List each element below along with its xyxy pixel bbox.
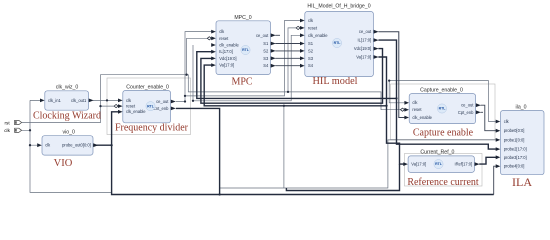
junction rst at counter reset branch: [99, 105, 101, 107]
block Counter_enable_0 (Frequency divider): [114, 84, 176, 123]
svg-text:ILA: ILA: [512, 175, 532, 189]
external port clk: [4, 128, 21, 133]
external port rst: [5, 120, 22, 125]
wire clk line to capture clk and ila clk: [389, 81, 498, 122]
junction rst at mpc reset branch: [185, 74, 187, 76]
svg-text:probe1[0:0]: probe1[0:0]: [504, 137, 525, 142]
block Current_Ref_0: [403, 150, 479, 173]
svg-text:HIL_Model_Of_H_bridge_0: HIL_Model_Of_H_bridge_0: [307, 4, 370, 10]
svg-text:S2: S2: [308, 48, 314, 53]
svg-text:probe0[0:0]: probe0[0:0]: [504, 128, 525, 133]
svg-text:Clocking Wizard: Clocking Wizard: [33, 110, 101, 121]
group rect Reference current: [405, 154, 483, 187]
wire mpc S2 to hil S2: [275, 50, 300, 52]
svg-text:ila_0: ila_0: [516, 104, 527, 110]
block vio_0 (VIO): [37, 129, 98, 155]
svg-text:RTL: RTL: [435, 162, 443, 166]
wire mpc S3 to hil S3: [275, 57, 300, 59]
junction ce_out at x185: [184, 100, 186, 102]
junction clk_enable net: [192, 100, 194, 102]
wire hil Va bus to mpc Va and current_ref: [204, 57, 404, 164]
svg-text:rst: rst: [5, 120, 11, 125]
block MPC_0: [207, 15, 275, 75]
svg-text:Cpt_enb: Cpt_enb: [458, 110, 474, 115]
svg-text:ce_out: ce_out: [461, 103, 474, 108]
wire mpc S1 to hil S1: [275, 43, 300, 45]
svg-text:Va[17:0]: Va[17:0]: [411, 162, 426, 167]
svg-text:RTL: RTL: [439, 107, 447, 111]
group rect Capture enable: [391, 84, 496, 140]
svg-text:Current_Ref_0: Current_Ref_0: [420, 150, 454, 156]
junction clk net y95.9: [184, 95, 186, 97]
svg-text:IL[17:0]: IL[17:0]: [358, 38, 372, 43]
svg-text:clk_enable: clk_enable: [126, 109, 146, 114]
svg-text:clk_enable: clk_enable: [308, 33, 328, 38]
block clk_wiz_0 (Clocking Wizard): [40, 85, 94, 111]
svg-text:S3: S3: [263, 56, 269, 61]
wire va drop lower run: [286, 164, 399, 190]
svg-text:clk_out1: clk_out1: [71, 98, 87, 103]
svg-text:Capture_enable_0: Capture_enable_0: [420, 87, 463, 93]
svg-text:clk_in1: clk_in1: [48, 98, 61, 103]
wire mpc S4 to hil S4: [275, 65, 300, 67]
junction clk at capture branch: [388, 79, 390, 81]
svg-text:RTL: RTL: [147, 104, 155, 108]
svg-text:Vdc[19:0]: Vdc[19:0]: [219, 56, 236, 61]
junction clk_out1 at x107: [106, 99, 108, 101]
wire clk_enable net to mpc and hil clk_enable: [193, 35, 301, 101]
svg-text:clk_wiz_0: clk_wiz_0: [56, 85, 79, 91]
svg-text:S3: S3: [308, 56, 314, 61]
svg-text:reset: reset: [219, 36, 229, 41]
svg-text:RTL: RTL: [334, 41, 342, 45]
wire mpc ce_out stub: [275, 34, 280, 36]
svg-text:reset: reset: [412, 107, 422, 112]
wire hil Vdc bus to mpc Vdc: [201, 49, 383, 104]
wire capture cpt_enb stub: [481, 111, 484, 113]
svg-text:ce_out: ce_out: [256, 33, 269, 38]
svg-text:vio_0: vio_0: [62, 129, 75, 135]
svg-text:probe3[17:0]: probe3[17:0]: [504, 155, 527, 160]
block ila_0 (ILA): [496, 104, 544, 174]
svg-text:Vdc[19:0]: Vdc[19:0]: [354, 46, 371, 51]
wire vio probe_out0 bus to counter clk_enable and bottom run: [93, 112, 494, 195]
svg-text:S4: S4: [308, 63, 314, 68]
svg-text:clk_enable: clk_enable: [412, 115, 432, 120]
junction clk at external port: [29, 129, 31, 131]
svg-text:ce_out: ce_out: [359, 29, 372, 34]
svg-text:probe4[0:0]: probe4[0:0]: [504, 164, 525, 169]
svg-text:iRef[17:0]: iRef[17:0]: [455, 162, 473, 167]
block HIL_Model_Of_H_bridge_0: [296, 4, 379, 77]
svg-text:probe_out0[0:0]: probe_out0[0:0]: [62, 143, 91, 148]
svg-text:IL[17:0]: IL[17:0]: [219, 49, 233, 54]
junction bottom run: [218, 193, 220, 195]
junction clk at vio branch: [29, 144, 31, 146]
wire rst net to counter mpc hil capture resets: [22, 28, 406, 123]
junction Va bus to mpc: [385, 105, 387, 107]
wire counter Cnt_enb down to bottom run: [176, 108, 220, 194]
svg-text:Counter_enable_0: Counter_enable_0: [126, 84, 169, 90]
wire hil ce_out to capture clk_enable: [378, 32, 405, 118]
wire probe1 net loop to ila probe1: [220, 106, 497, 188]
junction IL bus to mpc: [395, 97, 397, 99]
wire bottom run up to ila probe4: [494, 166, 497, 194]
svg-text:reset: reset: [308, 25, 318, 30]
group rect Frequency divider: [107, 78, 191, 135]
junction vio bus at probe_out: [110, 144, 112, 146]
svg-text:MPC_0: MPC_0: [234, 15, 251, 21]
block Capture_enable_0: [401, 87, 481, 123]
svg-text:RTL: RTL: [242, 48, 250, 52]
wire current_ref iRef bus to ila probe3: [479, 157, 497, 164]
wire counter ce_out to mpc clk and hil clk: [176, 21, 301, 102]
svg-text:ce_out: ce_out: [156, 99, 169, 104]
svg-text:HIL model: HIL model: [312, 76, 357, 87]
svg-text:Cnt_enb: Cnt_enb: [153, 106, 169, 111]
wire clk external to clk_wiz clk_in1 and vio clk: [22, 100, 112, 192]
svg-text:Va[17:0]: Va[17:0]: [219, 63, 234, 68]
svg-text:Va[17:0]: Va[17:0]: [356, 55, 371, 60]
svg-text:MPC: MPC: [231, 77, 252, 88]
wire capture ce_out to ila probe0: [481, 105, 498, 131]
svg-text:Capture enable: Capture enable: [413, 128, 474, 139]
svg-text:S4: S4: [263, 63, 269, 68]
svg-text:VIO: VIO: [54, 158, 73, 169]
wire hil IL bus to mpc IL and ila probe2: [197, 40, 497, 149]
svg-text:Reference current: Reference current: [407, 177, 479, 188]
svg-text:clk_enable: clk_enable: [219, 43, 239, 48]
svg-text:clk: clk: [4, 128, 10, 133]
junction rst at hil reset branch: [287, 91, 289, 93]
wire clk_out1 to counter clk: [93, 99, 119, 101]
svg-text:S2: S2: [263, 48, 269, 53]
svg-text:S1: S1: [308, 41, 314, 46]
svg-text:probe2[17:0]: probe2[17:0]: [504, 147, 527, 152]
junction probe1 tap: [283, 105, 285, 107]
svg-text:Frequency divider: Frequency divider: [115, 123, 189, 134]
svg-text:reset: reset: [126, 104, 136, 109]
svg-text:S1: S1: [263, 41, 269, 46]
